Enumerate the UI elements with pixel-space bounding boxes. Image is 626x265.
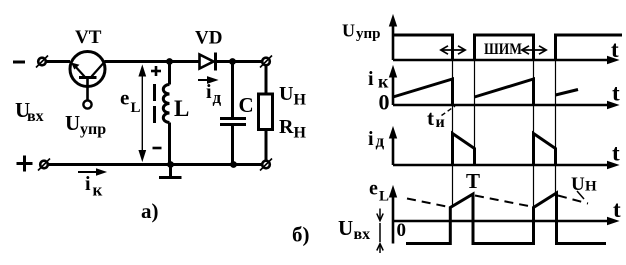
plot 1 axes (Uупр vs t)	[390, 16, 619, 64]
label iд (plot 3)	[368, 128, 385, 151]
svg-text:и: и	[436, 114, 445, 131]
svg-text:упр: упр	[356, 26, 381, 42]
resistor RH	[259, 94, 273, 130]
label UH	[279, 83, 307, 109]
timing reference line t4	[555, 60, 557, 193]
svg-text:ШИМ: ШИМ	[484, 41, 522, 58]
waveform eL (square wave with spikes)	[406, 193, 606, 244]
svg-text:i: i	[368, 128, 374, 150]
pause arrow 2 (double-headed)	[522, 46, 546, 54]
label tи with tick	[427, 106, 455, 131]
wire: bottom rail	[47, 163, 262, 166]
svg-text:e: e	[369, 178, 378, 200]
plot 4 axes (eL vs t)	[390, 187, 619, 244]
polarity plus sign (input)	[17, 156, 33, 172]
svg-text:0: 0	[379, 90, 390, 115]
svg-text:L: L	[131, 100, 141, 116]
polarity minus sign (input)	[13, 61, 25, 64]
svg-text:i: i	[85, 173, 91, 195]
wire: inductor bottom to ground node	[168, 123, 171, 166]
timing reference line t1	[452, 60, 454, 206]
svg-text:i: i	[206, 81, 212, 103]
svg-text:L: L	[379, 189, 389, 205]
svg-text:вх: вх	[354, 226, 371, 243]
svg-text:VD: VD	[195, 28, 222, 49]
waveform iк (ramps)	[393, 79, 578, 105]
label Uупр	[65, 111, 106, 138]
arrow eL (voltage double arrow)	[139, 66, 145, 161]
svg-text:б): б)	[292, 223, 310, 247]
control terminal (base, circle)	[83, 100, 91, 108]
svg-text:t: t	[611, 37, 619, 62]
label RH	[279, 116, 307, 142]
svg-text:а): а)	[141, 199, 159, 223]
svg-text:к: к	[378, 72, 389, 92]
node: capacitor bottom junction	[230, 161, 237, 168]
dashed curve UH (capacitor voltage)	[407, 196, 588, 208]
input terminal X1 (minus, circle with slash)	[36, 56, 48, 68]
label eL (plot 4)	[369, 178, 389, 205]
svg-text:C: C	[239, 93, 254, 117]
svg-text:L: L	[174, 96, 189, 121]
wire: diode cathode to output terminal (top rail)	[216, 60, 264, 63]
svg-text:e: e	[120, 86, 129, 110]
svg-text:t: t	[613, 197, 621, 222]
svg-text:д: д	[376, 132, 385, 151]
svg-text:Н: Н	[294, 92, 307, 109]
svg-text:0: 0	[397, 220, 407, 241]
current arrow iд	[198, 77, 217, 83]
label iд	[206, 81, 222, 107]
svg-text:U: U	[65, 111, 80, 135]
svg-text:T: T	[466, 169, 480, 193]
current arrow iк	[78, 169, 106, 175]
svg-text:i: i	[368, 68, 374, 90]
svg-text:вх: вх	[27, 108, 44, 125]
output terminal bottom (circle with slash)	[260, 159, 272, 171]
node: top junction of inductor	[166, 58, 173, 65]
wire: output terminal top to resistor	[265, 65, 268, 94]
svg-text:Н: Н	[585, 179, 597, 195]
timing reference line t3	[533, 60, 535, 207]
svg-text:к: к	[93, 181, 103, 200]
svg-text:U: U	[279, 83, 293, 105]
wire: node to inductor top	[168, 62, 171, 85]
label Uупр	[342, 21, 381, 43]
node: capacitor top junction	[229, 58, 236, 65]
diode VD	[200, 53, 216, 71]
svg-text:R: R	[279, 116, 294, 138]
minus sign (inductor bottom)	[153, 147, 162, 150]
label eL	[120, 86, 141, 117]
label iк (plot 2)	[368, 68, 389, 92]
svg-text:упр: упр	[80, 121, 106, 138]
plot 3 axes (iд vs t)	[390, 128, 619, 169]
svg-text:U: U	[338, 216, 353, 240]
inductor L (coil)	[163, 85, 169, 123]
inductor core (dashed line)	[153, 84, 156, 123]
svg-text:U: U	[342, 21, 355, 41]
svg-text:Н: Н	[294, 125, 307, 142]
timing reference line t2	[474, 60, 476, 165]
svg-text:VT: VT	[75, 27, 102, 48]
dimension arrows Uвх (pointing to axis and to low level)	[377, 209, 383, 254]
plus sign (inductor top)	[151, 66, 161, 76]
output terminal top (circle with slash)	[260, 56, 272, 68]
wire: resistor to output terminal bottom	[265, 130, 268, 162]
svg-text:t: t	[612, 81, 620, 106]
node: ground junction	[167, 161, 174, 168]
transistor VT	[70, 52, 105, 101]
label Uвх (plot 4)	[338, 216, 370, 243]
waveform Uупр (square pulses)	[393, 35, 622, 60]
svg-text:t: t	[612, 141, 620, 166]
label Uвх	[15, 98, 44, 125]
plot 2 axes (iк vs t)	[390, 67, 619, 109]
wire: minus terminal to transistor emitter	[46, 60, 70, 63]
label iк	[85, 173, 103, 200]
input terminal X2 (plus, circle with slash)	[38, 159, 50, 171]
svg-text:t: t	[427, 106, 434, 130]
svg-text:д: д	[213, 88, 222, 107]
pause arrow 1 (double-headed)	[441, 46, 465, 54]
capacitor C	[220, 62, 246, 166]
wire: transistor collector to diode anode (top rail)	[105, 60, 200, 63]
label UH (plot 4) with leader	[571, 174, 597, 199]
ground	[159, 165, 182, 178]
waveform iд (decaying pulses)	[453, 134, 556, 166]
